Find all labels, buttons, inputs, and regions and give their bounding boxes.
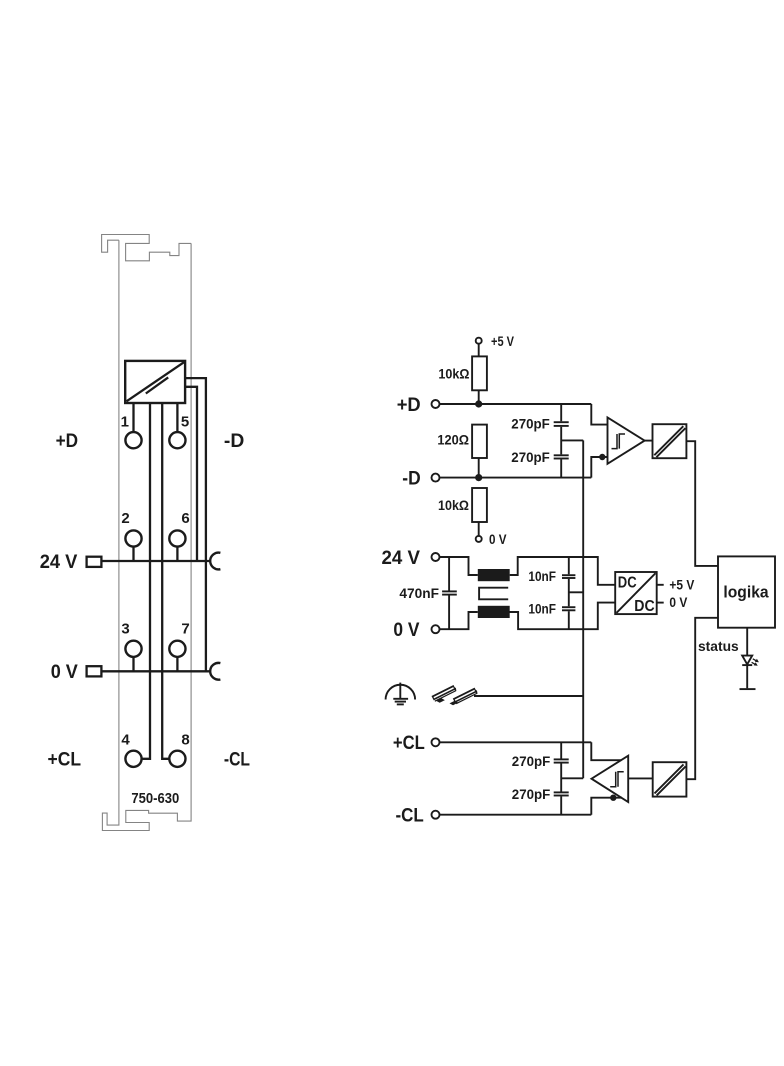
- svg-text:-CL: -CL: [396, 806, 425, 827]
- svg-text:10nF: 10nF: [528, 600, 556, 616]
- svg-text:470nF: 470nF: [399, 585, 439, 601]
- svg-text:270pF: 270pF: [511, 416, 550, 432]
- svg-text:10kΩ: 10kΩ: [438, 497, 469, 513]
- svg-text:2: 2: [121, 510, 129, 527]
- svg-text:120Ω: 120Ω: [437, 432, 469, 448]
- svg-text:4: 4: [121, 731, 130, 748]
- svg-text:0 V: 0 V: [51, 662, 78, 683]
- svg-text:0 V: 0 V: [669, 594, 687, 610]
- svg-text:+5 V: +5 V: [491, 333, 515, 349]
- svg-text:270pF: 270pF: [512, 753, 551, 769]
- svg-text:-CL: -CL: [224, 750, 250, 771]
- svg-text:270pF: 270pF: [511, 449, 550, 465]
- svg-text:DC: DC: [618, 574, 637, 591]
- svg-text:+5 V: +5 V: [669, 576, 694, 592]
- svg-text:+CL: +CL: [48, 750, 82, 771]
- svg-text:0 V: 0 V: [393, 620, 419, 641]
- svg-text:8: 8: [181, 731, 189, 748]
- svg-text:3: 3: [121, 621, 129, 638]
- svg-text:1: 1: [121, 414, 129, 431]
- svg-text:+D: +D: [397, 395, 421, 416]
- svg-text:-D: -D: [224, 431, 244, 452]
- svg-text:0 V: 0 V: [489, 531, 507, 547]
- svg-text:750-630: 750-630: [131, 790, 179, 807]
- svg-text:-D: -D: [402, 468, 420, 489]
- svg-text:status: status: [698, 638, 739, 654]
- svg-text:24 V: 24 V: [40, 552, 78, 573]
- svg-text:10kΩ: 10kΩ: [438, 365, 469, 381]
- svg-text:logika: logika: [723, 582, 769, 601]
- svg-text:7: 7: [181, 621, 189, 638]
- svg-text:5: 5: [181, 414, 189, 431]
- svg-text:6: 6: [181, 510, 189, 527]
- svg-text:270pF: 270pF: [512, 786, 551, 802]
- svg-text:+CL: +CL: [393, 733, 425, 754]
- svg-text:+D: +D: [56, 431, 79, 452]
- svg-text:DC: DC: [634, 598, 655, 615]
- svg-text:10nF: 10nF: [528, 568, 556, 584]
- svg-text:24 V: 24 V: [382, 548, 421, 569]
